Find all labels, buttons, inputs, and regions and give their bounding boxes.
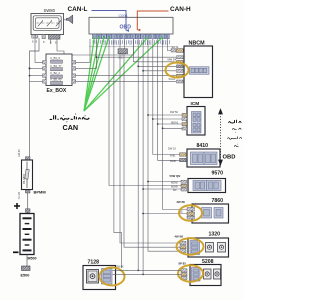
- switch S2: [47, 21, 52, 27]
- wire CAN-L (blue): [92, 11, 127, 31]
- battery MB00: [20, 214, 34, 255]
- green CAN fan lines: [84, 37, 163, 112]
- svg-text:M500: M500: [28, 256, 37, 260]
- switch S1: [38, 21, 43, 27]
- wire bus: pin10 to NBCM y66: [137, 39, 139, 271]
- highlight ellipse 7128: [100, 268, 125, 286]
- junction dots on pin11 bus: [142, 70, 144, 72]
- svg-text:8410: 8410: [197, 143, 209, 149]
- wire CAN branch 1: [84, 37, 94, 112]
- svg-text:NBCM: NBCM: [189, 41, 206, 47]
- 1320 relay elements: [206, 243, 214, 253]
- svg-text:DW 10: DW 10: [168, 147, 176, 151]
- wire Ex_BOX stub3 to NBCM: [76, 75, 176, 77]
- highlight ellipse 1320: [177, 238, 204, 254]
- wire BPMM to battery: [27, 193, 29, 214]
- wire CAN branch 2: [84, 37, 99, 112]
- ICM internal connectors: [192, 112, 202, 134]
- SW80 pin stubs: [32, 35, 35, 39]
- svg-text:F_B5_40: F_B5_40: [51, 78, 62, 82]
- svg-text:8V8L: 8V8L: [170, 154, 176, 157]
- wire bus: pin2 to NBCM row y57: [97, 56, 177, 58]
- svg-text:DW 50: DW 50: [170, 110, 178, 114]
- wire bus: pin12 to ICM row1: [148, 39, 180, 252]
- svg-text:E500: E500: [21, 274, 30, 278]
- switch S3: [56, 21, 61, 27]
- svg-text:50W QN: 50W QN: [170, 174, 181, 178]
- svg-text:8P 85: 8P 85: [179, 262, 187, 266]
- svg-text:10A 50: 10A 50: [18, 149, 21, 157]
- wire 7128 to 5208 row2: [113, 273, 182, 275]
- svg-text:MW D4: MW D4: [168, 58, 177, 62]
- horn H1: [64, 19, 67, 21]
- wire bus: pin16 to NBCM top stub: [167, 39, 171, 51]
- highlight ellipse 5208: [178, 265, 203, 281]
- junction block under OBD: [118, 49, 128, 54]
- svg-text:F_B4_T7: F_B4_T7: [51, 64, 63, 68]
- wire CAN branch 5: [84, 37, 148, 111]
- highlight ellipse 7860: [179, 205, 202, 221]
- Ex_BOX right stubs: [72, 61, 76, 64]
- svg-text:7128: 7128: [88, 260, 100, 266]
- ground stub E500: [22, 266, 31, 271]
- wire bus: pin14 to ICM row3 / 8410 row2: [158, 39, 181, 161]
- label - (minus): [13, 251, 19, 253]
- wire CAN-H (red): [137, 11, 168, 30]
- wire battery to ground: [26, 255, 28, 267]
- wire Ex_BOX stub2 up to bus: [76, 39, 97, 68]
- BPMM bottom stub: [25, 190, 30, 193]
- battery top stub: [25, 209, 30, 212]
- svg-text:7860: 7860: [212, 198, 224, 204]
- label +: [14, 203, 20, 209]
- svg-text:9570: 9570: [212, 171, 224, 177]
- SW80 pin labels: [32, 40, 57, 45]
- OBD pin labels: [93, 40, 169, 45]
- svg-text:OBD: OBD: [223, 155, 236, 161]
- switch module SW80: [31, 14, 64, 35]
- wire branch to Ex_BOX stub3: [30, 75, 43, 77]
- svg-text:2W 8K: 2W 8K: [177, 200, 186, 204]
- wire bus: OBD pin4 down to 9570 row2: [109, 39, 181, 186]
- svg-text:4W B6: 4W B6: [175, 235, 184, 239]
- svg-text:SW80: SW80: [44, 8, 56, 13]
- svg-text:F_B2_2: F_B2_2: [51, 71, 61, 75]
- wire CAN branch 6: [84, 37, 163, 111]
- NBCM internal pin strip: [190, 67, 210, 74]
- wire SW80 stub to OBD (top horizontal): [57, 39, 133, 55]
- wire bus: pin11 long bus to NBCM/9570/7860/1320: [142, 39, 144, 275]
- label CAN data line (arabic caption): [50, 114, 90, 122]
- svg-text:F_B1_5: F_B1_5: [51, 56, 61, 60]
- svg-text:M2M0: M2M0: [171, 182, 178, 185]
- svg-text:1320: 1320: [209, 232, 221, 238]
- wire SW80 stub2 to Ex_BOX: [35, 38, 43, 62]
- wire CAN branch 3: [84, 37, 104, 112]
- wire 7128 to 5208 row1: [113, 269, 182, 271]
- svg-text:S1 M0: S1 M0: [18, 191, 21, 199]
- NBCM left stubs: [168, 56, 184, 83]
- wire Ex_BOX stub4 to NBCM: [76, 80, 176, 82]
- wire bus: OBD pin5 down to 1320 row2: [114, 39, 122, 268]
- wire bus: OBD pin8 down to 1320 row3: [120, 54, 180, 243]
- wire SW80 left stub down: [30, 38, 40, 157]
- svg-text:MD8L: MD8L: [170, 160, 177, 163]
- connector OBD: [89, 17, 173, 34]
- svg-text:MDA2: MDA2: [171, 121, 179, 125]
- svg-text:CAN-L: CAN-L: [68, 6, 88, 13]
- Ex_BOX left stubs: [43, 61, 47, 64]
- svg-text:OBD: OBD: [120, 25, 132, 31]
- fuse box Ex_BOX: [46, 54, 72, 86]
- wire branch to Ex_BOX stub2: [30, 67, 43, 69]
- wire bus: pin15 to ICM row4 / 9570 row1 / 7860 row1: [163, 39, 188, 210]
- junction dot: [29, 67, 31, 69]
- 5208 relay elements: [204, 269, 212, 279]
- module ICM: [187, 107, 205, 136]
- OBD pin row: [92, 34, 169, 38]
- wire bus: pin9 to NBCM y62: [133, 39, 176, 62]
- wire CAN branch 4: [84, 37, 109, 112]
- label arabic: irtibat: [228, 120, 242, 147]
- switch link (dash-dot): [37, 22, 62, 24]
- module NBCM: [184, 46, 213, 98]
- highlight ellipse NBCM: [166, 63, 189, 78]
- svg-text:F8L M500: F8L M500: [24, 173, 26, 184]
- dashed arrow (indirect link to OBD): [219, 110, 222, 165]
- svg-text:CAN: CAN: [63, 123, 79, 132]
- svg-text:4W M: 4W M: [172, 45, 179, 49]
- svg-text:CAN-H: CAN-H: [170, 6, 191, 13]
- svg-text:D85: D85: [119, 58, 124, 60]
- OBD pin label rule: [89, 46, 173, 48]
- 7128 right connector: [102, 269, 113, 285]
- wire bus: pin13 to ICM row2 / 8410 row1: [153, 39, 181, 155]
- svg-text:ICM: ICM: [191, 101, 200, 107]
- svg-text:BPMM: BPMM: [34, 190, 47, 195]
- svg-text:Ex_BOX: Ex_BOX: [47, 88, 67, 94]
- junction dot: [29, 75, 31, 77]
- wire branch to Ex_BOX stub4: [30, 80, 43, 82]
- wire Ex_BOX stub1 up to bus: [76, 39, 90, 62]
